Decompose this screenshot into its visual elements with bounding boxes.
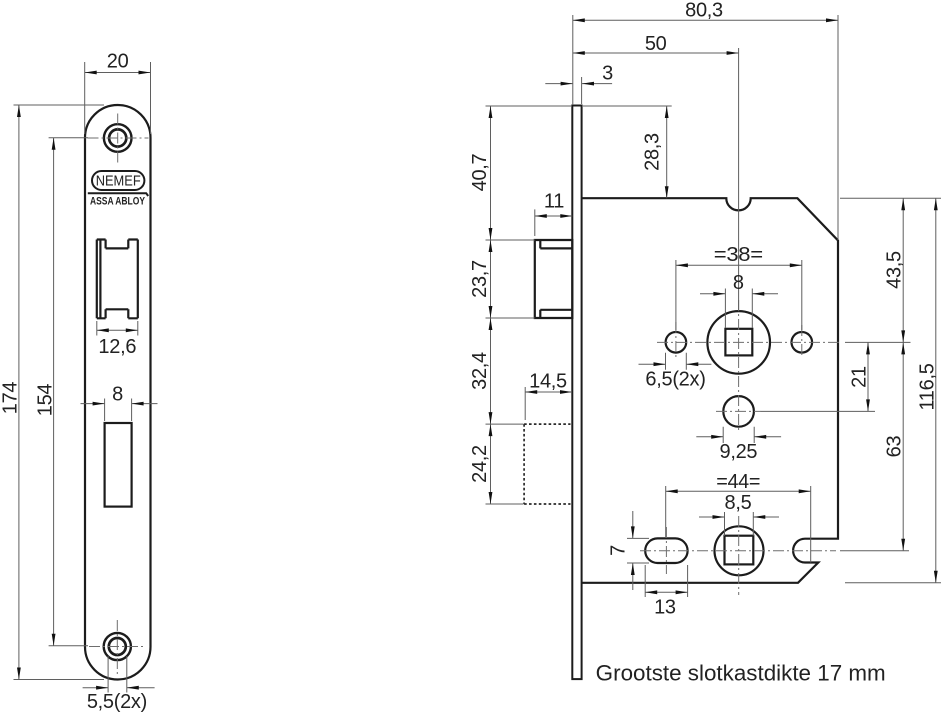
dim 13 [645,565,687,619]
centerline 6,5 left vertical [675,322,677,357]
bottom screw hole [104,633,131,660]
dim 8 faceplate [81,384,158,422]
dim 174 [0,105,104,680]
dim 11 [535,191,573,237]
svg-text:7: 7 [608,545,630,556]
svg-text:5,5(2x): 5,5(2x) [87,691,147,713]
ASSA ABLOY rule [88,193,148,196]
top screw hole [104,124,132,152]
svg-text:ASSA ABLOY: ASSA ABLOY [90,196,146,208]
svg-text:116,5: 116,5 [917,363,939,410]
svg-text:12,6: 12,6 [98,336,136,358]
svg-text:9,25: 9,25 [720,441,758,463]
svg-text:154: 154 [35,384,57,417]
dim 80,3 [573,0,838,240]
dim 5,5(2x) [83,656,155,713]
svg-text:40,7: 40,7 [469,153,491,191]
svg-text:Grootste slotkastdikte 17 mm: Grootste slotkastdikte 17 mm [596,661,886,686]
svg-text:6,5(2x): 6,5(2x) [645,369,705,391]
lock body outline [582,198,838,583]
dim 50 [573,33,739,311]
dim 6,5(2x) [639,353,712,391]
oval slot [645,538,687,563]
svg-text:8: 8 [733,272,744,294]
centerline 6,5 right vertical [801,325,803,357]
dim 28,3 [583,106,672,198]
deadbolt opening front view [105,423,132,507]
right 6,5 hole [792,332,813,353]
svg-text:3: 3 [602,63,613,85]
centerline oval vertical [665,527,667,574]
centerline lower horizontal [640,550,836,552]
side view faceplate strip [572,106,581,680]
spindle square hole [725,329,752,356]
dim 8 spindle [700,272,778,328]
svg-text:28,3: 28,3 [642,133,664,171]
svg-text:13: 13 [654,597,676,619]
svg-text:=38=: =38= [714,244,763,266]
dim 14,5 [525,371,572,421]
svg-text:174: 174 [0,382,22,415]
dim 63 [840,342,909,550]
lower spindle circle [715,526,764,575]
svg-text:14,5: 14,5 [529,371,567,393]
dim 21 [761,342,875,411]
svg-text:20: 20 [107,51,129,73]
centerline spindle vertical [738,300,740,430]
svg-text:50: 50 [645,33,667,55]
deadbolt side view dashed [524,424,570,504]
centerline spindle horizontal [657,341,842,343]
dim =44= [666,471,811,563]
dim 154 [35,138,89,646]
svg-text:8,5: 8,5 [725,492,752,514]
svg-text:80,3: 80,3 [685,0,723,22]
dim 9,25 [696,427,781,463]
dim 20 [85,51,151,135]
dim 8,5 [699,492,779,536]
left 6,5 hole [666,332,687,353]
dim 3 [545,63,613,105]
dim 12,6 [97,321,138,358]
lower spindle square [725,536,754,565]
dim =38= [676,244,802,330]
top hole centerlines [88,114,149,164]
9,25 hole [723,396,754,427]
svg-text:8: 8 [112,384,123,406]
svg-text:32,4: 32,4 [469,352,491,390]
svg-text:43,5: 43,5 [884,251,906,289]
NEMEF logo pill [92,171,144,190]
svg-text:24,2: 24,2 [469,445,491,483]
latch bolt side view [535,240,573,318]
svg-text:11: 11 [544,191,564,213]
faceplate front view outline [85,105,151,680]
svg-text:=44=: =44= [716,471,760,493]
centerline 9,25 horizontal [716,410,761,412]
svg-text:23,7: 23,7 [469,260,491,298]
dim 116,5 [845,198,941,583]
spindle hub circle [707,311,770,374]
centerline lower spindle vertical [738,516,740,595]
dim chain 40,7 / 23,7 / 32,4 / 24,2 [469,106,572,504]
svg-text:63: 63 [884,436,906,458]
dim 7 [608,511,650,590]
svg-text:21: 21 [849,366,871,388]
bottom hole centerlines [89,620,146,674]
dim 43,5 [840,198,941,342]
latch opening front view [97,240,138,319]
svg-text:NEMEF: NEMEF [96,173,141,190]
